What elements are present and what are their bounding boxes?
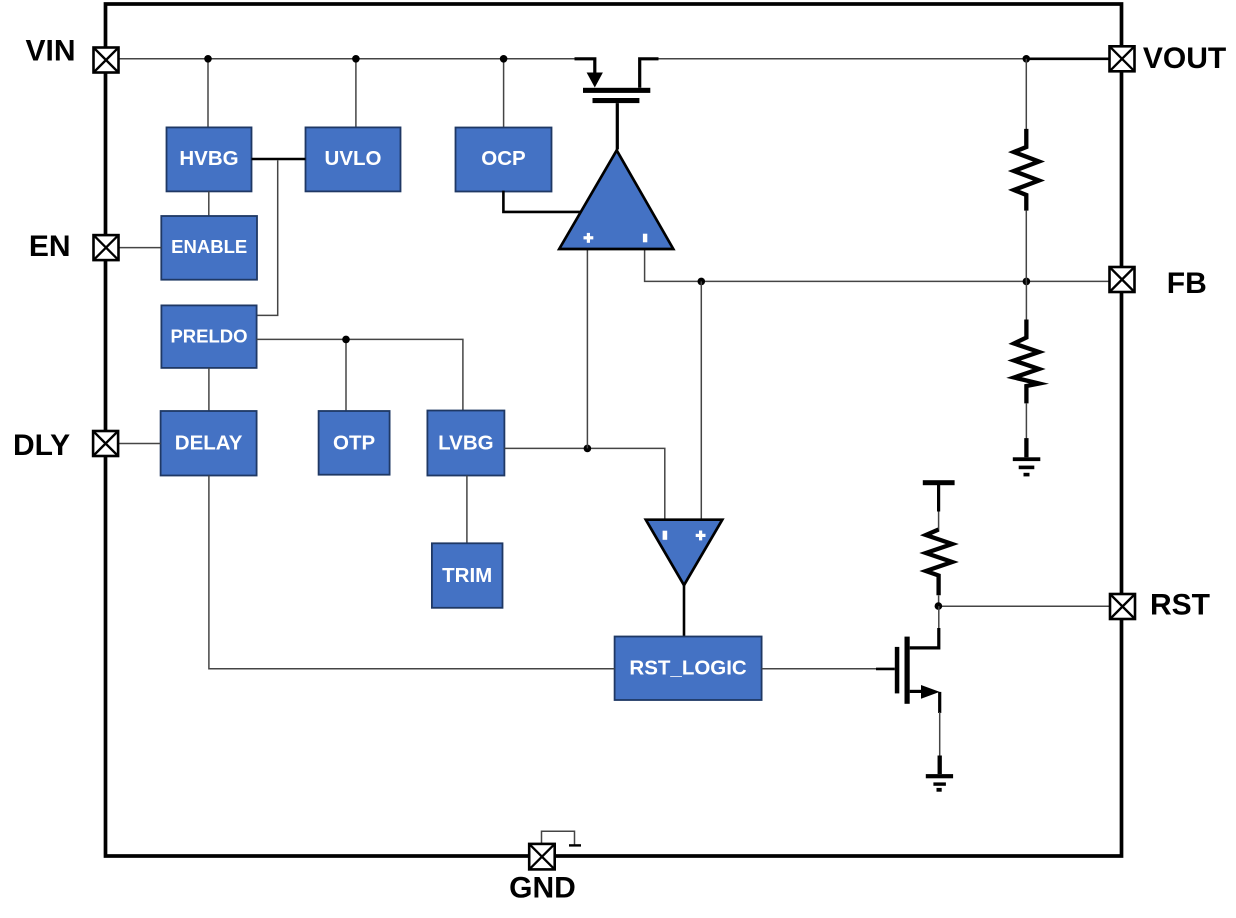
svg-text:TRIM: TRIM (442, 564, 492, 587)
wire drop to UVLO (355, 59, 357, 128)
transistor M1 drain lead (640, 59, 659, 88)
node junction VOUT-R1 (1023, 55, 1031, 63)
svg-text:PRELDO: PRELDO (170, 326, 247, 347)
svg-text:GND: GND (509, 871, 576, 904)
transistor M2 channel bar (905, 637, 910, 704)
block HVBG (167, 127, 252, 191)
svg-text:VIN: VIN (25, 35, 75, 68)
op-amp U2 comparator (646, 520, 723, 586)
pin RST (1110, 594, 1135, 619)
svg-text:DELAY: DELAY (175, 432, 243, 455)
wire PRELDO to DELAY (208, 368, 210, 411)
wire RST_LOGIC output to M2 gate (762, 668, 880, 670)
wire RST line (938, 605, 1110, 607)
resistor R1 upper divider (1025, 59, 1027, 130)
svg-text:FB: FB (1167, 267, 1207, 300)
transistor M1 source arrowhead (587, 73, 603, 88)
pin EN (94, 235, 119, 260)
wire comparator plus input (700, 281, 702, 519)
op-amp U1 minus mark (643, 234, 647, 243)
wire DELAY to RST_LOGIC (209, 476, 615, 669)
block TRIM (432, 543, 503, 608)
wire LVBG to TRIM (466, 476, 468, 544)
svg-text:VOUT: VOUT (1143, 42, 1226, 75)
block RST_LOGIC (615, 637, 762, 701)
transistor M2 gate bar (895, 647, 900, 694)
block DELAY (161, 411, 257, 476)
wire EN pin to ENABLE (119, 247, 161, 249)
svg-text:DLY: DLY (13, 429, 70, 462)
transistor M2 source arrowhead (921, 685, 940, 699)
pin DLY (93, 431, 118, 456)
block OCP (456, 128, 552, 192)
op-amp U1 plus mark (584, 236, 594, 239)
node junction LVBG line and error amp plus input (584, 445, 592, 453)
pin GND (529, 844, 555, 870)
transistor M1 gate bar (593, 98, 640, 103)
svg-text:RST_LOGIC: RST_LOGIC (629, 657, 747, 680)
wire DLY pin to DELAY (118, 443, 160, 445)
node junction VIN-UVLO (352, 55, 360, 63)
node junction RST-M2 drain (935, 602, 943, 610)
pin FB (1110, 267, 1135, 292)
svg-text:OCP: OCP (481, 147, 525, 170)
wire VIN rail (119, 58, 575, 60)
node junction FB line resistor divider (1023, 278, 1031, 286)
wire M2 gate stub (876, 668, 895, 671)
wire drop to OCP (503, 59, 505, 128)
node junction VIN-HVBG (204, 55, 212, 63)
transistor M1 PMOS pass device source lead (575, 59, 595, 74)
svg-text:UVLO: UVLO (325, 147, 382, 170)
svg-text:HVBG: HVBG (179, 147, 238, 170)
wire VOUT rail to pin (1026, 57, 1109, 60)
wire error amp plus input (586, 249, 588, 448)
wire branch from HVBG-UVLO down to PRELDO (257, 160, 278, 315)
block OTP (319, 411, 390, 475)
wire PRELDO output to LVBG (257, 339, 463, 410)
wire drop to HVBG (207, 59, 209, 128)
block PRELDO (161, 305, 256, 368)
wire LVBG output to comparator minus input (504, 448, 664, 519)
wire M1 gate to error amp (616, 103, 619, 149)
svg-text:RST: RST (1150, 589, 1210, 622)
svg-text:ENABLE: ENABLE (171, 236, 247, 257)
node junction FB line comparator tap (698, 278, 706, 286)
pin VOUT (1110, 46, 1135, 71)
wire error amp minus input to FB line (645, 249, 1110, 281)
op-amp U2 minus mark (663, 531, 668, 540)
node junction VIN-OCP (500, 55, 508, 63)
wire HVBG to ENABLE (208, 191, 210, 215)
op-amp U2 plus mark (696, 534, 706, 537)
node junction PRELDO-OTP (342, 336, 350, 344)
chip boundary rectangle (106, 4, 1122, 856)
wire comparator output to RST_LOGIC (683, 585, 686, 636)
svg-text:LVBG: LVBG (438, 431, 493, 454)
block ENABLE (161, 216, 257, 280)
block LVBG (427, 411, 504, 476)
wire VOUT rail (659, 58, 1027, 60)
wire HVBG to UVLO (252, 158, 306, 161)
transistor M1 channel bar (583, 88, 650, 93)
wire M2 source to ground (939, 712, 941, 757)
resistor R2 lower divider (1025, 281, 1027, 321)
block UVLO (306, 127, 401, 191)
wire OCP output to error amp (503, 191, 581, 212)
pin VIN (94, 48, 119, 73)
transistor M2 source lead (910, 690, 924, 693)
transistor M2 NMOS drain lead (938, 606, 940, 629)
op-amp U1 error amplifier (559, 150, 673, 249)
supply bar for R3 (923, 480, 955, 485)
wire OTP drop (345, 339, 347, 411)
svg-text:EN: EN (29, 230, 71, 263)
resistor R3 RST pull-up (938, 512, 940, 532)
GND reference bracket (542, 831, 575, 845)
ground M2 source (938, 756, 942, 775)
svg-text:OTP: OTP (333, 431, 375, 454)
ground divider (1024, 438, 1028, 457)
